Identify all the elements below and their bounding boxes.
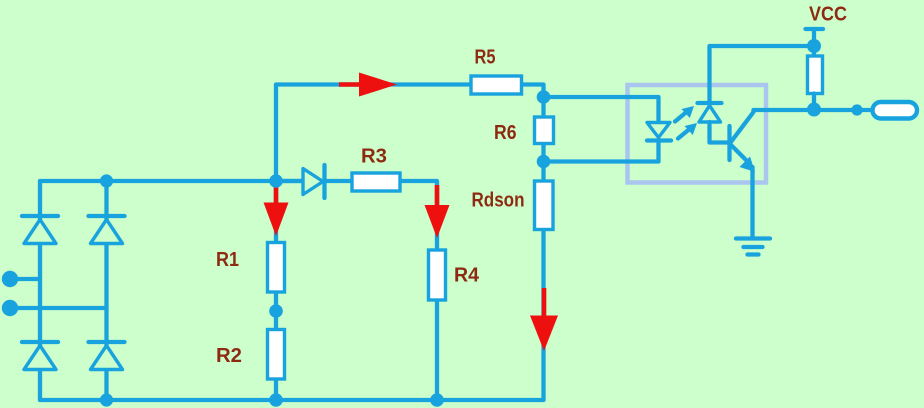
svg-text:R5: R5 [475,47,496,69]
wire: bridge right branch [104,181,108,400]
wire: R3 to R4 column [400,181,437,250]
current arrow right on top row [339,82,360,87]
wire: junction to R1 [274,181,278,243]
wire: collector to output [754,108,873,112]
junction node between R1 and R2 [269,304,283,318]
photodiode triangle [699,106,721,123]
node output small [851,104,862,115]
light arrow 1 [675,112,687,122]
wire: top row to R5 [276,82,471,86]
wire: pull-up to output node [812,94,816,111]
wire: bridge left branch [38,181,42,400]
opto LED cathode bar [647,138,671,142]
node VCC [807,39,821,53]
bridge diode D4 bar [89,340,125,344]
svg-text:R4: R4 [454,265,480,287]
wire: diode D5 to R3 [325,179,353,183]
svg-text:Rdson: Rdson [472,190,525,212]
wire: R2 to bottom rail [274,379,278,400]
node output at collector [807,103,821,117]
bridge diode D3 triangle [24,346,56,370]
current arrow down at Rdson branch [542,288,547,317]
transistor Q1 collector [731,110,754,143]
transistor Q1 base bar [727,126,731,160]
resistor R7 (pull-up) [808,56,823,94]
wire: R5 to R6 column [522,85,544,118]
wire: LED top feed [544,97,659,123]
junction node at bridge top right [100,174,113,187]
junction node R6/Rdson [537,155,551,169]
current arrow down at R1 branch [274,186,279,204]
transistor Q1 emitter [731,145,749,163]
svg-text:R3: R3 [361,146,387,168]
resistor R5 [471,76,522,94]
svg-text:VCC: VCC [809,4,847,26]
bridge diode D2 bar [89,214,125,218]
input terminal P2 [2,300,18,316]
optocoupler U1 package box [628,85,767,183]
wire: Rdson to bottom rail [541,230,545,401]
wire: bridge top rail [40,179,303,183]
junction node R2 at bottom rail [269,393,283,407]
wire: AC input bottom stub [10,306,107,310]
wire: photodiode to transistor base [710,122,730,143]
diode D5 cathode bar [322,165,326,198]
bridge diode D1 bar [22,214,58,218]
resistor Rdson [535,181,554,230]
wire: VCC bar to node [812,29,816,56]
svg-text:R1: R1 [216,249,239,271]
wire: bottom rail [40,398,544,402]
wire: center column top (junction to R5 row) [274,85,278,182]
wire: R1 to R2 [274,292,278,330]
VCC terminal bar [806,27,824,31]
resistor R1 [268,243,285,293]
junction node at R1 top [269,174,283,188]
wire: R6 to Rdson [541,144,545,182]
junction node R5/R6 [537,90,551,104]
wire: emitter to ground [750,167,754,239]
wire: junction to diode D5 [276,179,303,183]
opto LED triangle [647,123,670,138]
bridge diode D4 triangle [91,346,123,370]
wire: R4 to bottom rail [435,300,439,400]
junction node R4 at bottom rail [430,393,444,407]
resistor R3 [352,173,400,191]
junction node bridge right at bottom rail [100,393,113,406]
current arrow down at R4 branch [435,185,440,206]
diode D5 triangle [303,169,323,195]
bridge diode D1 triangle [24,220,56,244]
svg-text:R6: R6 [494,122,517,144]
resistor R2 [268,330,285,380]
output terminal pad [873,102,918,119]
wire: AC input top stub [10,277,40,281]
bridge diode D3 bar [22,340,58,344]
svg-text:R2: R2 [216,345,242,367]
photodiode cathode bar [698,101,722,105]
bridge diode D2 triangle [91,220,123,244]
wire: LED bottom return [544,140,659,162]
wire: VCC rail to photodiode [710,46,815,103]
light arrow 2 [678,129,690,139]
input terminal P1 [2,271,18,287]
resistor R4 [429,250,446,300]
resistor R6 [535,117,554,144]
ground [736,236,770,240]
